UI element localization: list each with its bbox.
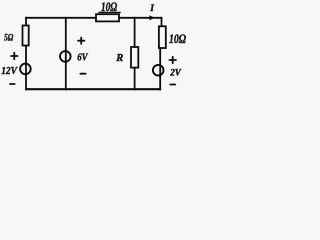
svg-text:I: I <box>149 4 154 14</box>
svg-text:10Ω: 10Ω <box>101 1 117 15</box>
svg-text:5Ω: 5Ω <box>4 32 14 43</box>
svg-text:12V: 12V <box>1 66 18 78</box>
svg-text:R: R <box>115 53 123 64</box>
svg-text:6V: 6V <box>77 53 88 64</box>
svg-text:10Ω: 10Ω <box>169 33 187 46</box>
svg-text:2V: 2V <box>169 68 182 78</box>
